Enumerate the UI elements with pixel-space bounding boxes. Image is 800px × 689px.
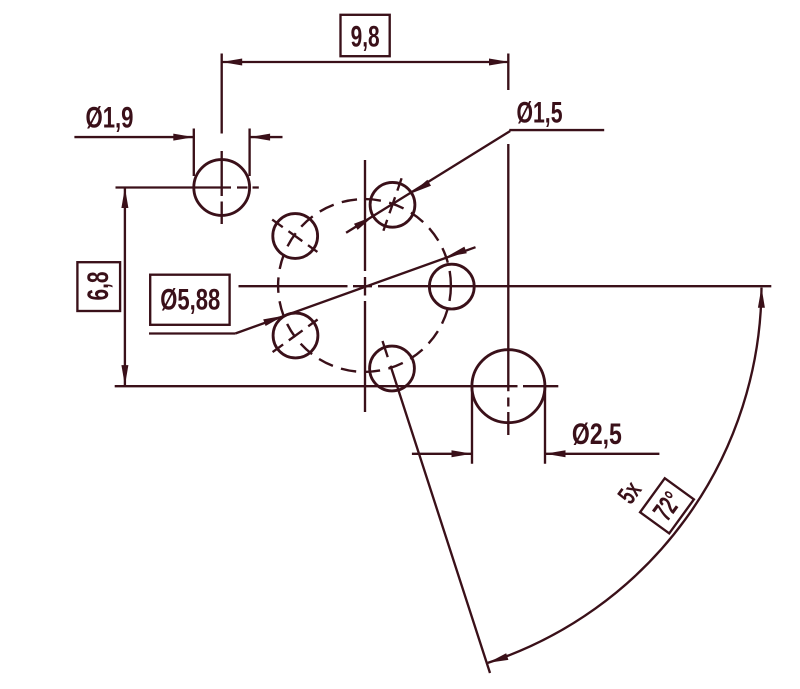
- bolt circle (dashed, Ø5.88 pitch circle): [278, 199, 451, 372]
- radial centermark of hole H2: [383, 178, 401, 231]
- extension line Ø2.5 left: [471, 386, 473, 464]
- svg-text:72°: 72°: [647, 486, 688, 526]
- label box 72° (rotated): [640, 478, 694, 533]
- vertical centerline of bolt circle: [364, 160, 366, 412]
- arrow Ø2.5 right: [545, 450, 566, 457]
- dimension Ø1.9 leader lines: [74, 136, 282, 138]
- arrow Ø5.88 lower-left: [263, 316, 284, 326]
- hole H5 bottom (Ø1.5): [370, 346, 415, 391]
- svg-text:Ø1,9: Ø1,9: [86, 102, 134, 135]
- hole H1 right (Ø1.5): [429, 264, 474, 309]
- arrow Ø1.5 at far edge of hole H2: [354, 216, 373, 230]
- arrow Ø1.5 at near edge of hole H2: [412, 180, 431, 194]
- locating hole Ø1.9 top-left: [194, 160, 250, 216]
- svg-text:Ø2,5: Ø2,5: [572, 418, 622, 451]
- arrow arc top: [758, 287, 765, 308]
- vertical centerline of Ø2.5 hole / 9.8 extension: [507, 54, 509, 436]
- svg-text:9,8: 9,8: [351, 21, 380, 54]
- arrow 9.8 right: [489, 59, 510, 66]
- arrow 6.8 bottom: [121, 365, 128, 386]
- hole H4 lower-left (Ø1.5): [273, 313, 318, 358]
- extension line Ø1.9 right: [248, 129, 250, 177]
- angle leg through hole H5 to arc: [383, 341, 491, 673]
- hole H3 upper-left (Ø1.5): [273, 214, 318, 259]
- leader underline Ø1,5: [509, 129, 604, 131]
- diameter line Ø5.88 (through bolt circle): [235, 247, 475, 333]
- angle dimension arc 72°: [488, 288, 762, 663]
- svg-text:6,8: 6,8: [82, 272, 115, 301]
- arrow 6.8 top: [121, 188, 128, 209]
- label box Ø5,88: [150, 275, 229, 325]
- dimension line Ø2.5: [412, 453, 660, 455]
- arrow 9.8 left: [222, 59, 243, 66]
- extension line Ø2.5 right: [544, 386, 546, 464]
- label box 9,8: [341, 15, 390, 56]
- hole H2 top (Ø1.5): [370, 182, 415, 227]
- horizontal centerline of bolt circle (extends right to angle arc): [239, 285, 772, 287]
- radial centermark of hole H3: [272, 220, 317, 252]
- horizontal centerline of Ø1.9 hole / 6.8 extension: [116, 186, 259, 188]
- arrow Ø1.9 left: [173, 134, 194, 141]
- arrow Ø2.5 left: [452, 450, 473, 457]
- locating hole Ø2.5 bottom-right: [472, 350, 545, 423]
- svg-text:Ø1,5: Ø1,5: [517, 97, 563, 130]
- arrow Ø5.88 upper-right: [446, 247, 467, 257]
- dimension line 6.8 (left, vertical): [124, 188, 126, 386]
- arrow arc bottom: [488, 653, 509, 663]
- horizontal centerline of Ø2.5 hole / 6.8 extension: [115, 385, 559, 387]
- label box 6,8: [77, 262, 120, 311]
- arrow Ø1.9 right: [250, 134, 271, 141]
- radial centermark of hole H4: [273, 320, 318, 353]
- leader underline Ø5,88: [149, 332, 235, 334]
- vertical centerline of Ø1.9 hole / 9.8 extension: [221, 54, 223, 225]
- extension line Ø1.9 left: [193, 129, 195, 177]
- dimension line 9.8 (top): [222, 61, 510, 63]
- svg-text:Ø5,88: Ø5,88: [160, 284, 220, 317]
- svg-text:5x: 5x: [611, 475, 647, 509]
- leader diagonal Ø1,5: [346, 131, 510, 233]
